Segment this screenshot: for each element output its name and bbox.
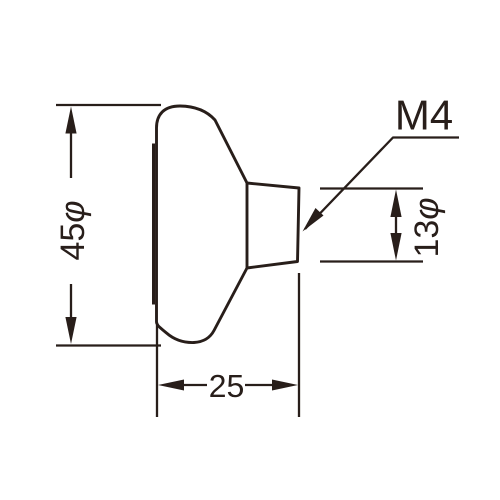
knob shoulder face line [246, 183, 249, 268]
13-dia dimension text [414, 199, 445, 255]
13-dia upper arrowhead [390, 190, 401, 218]
25 right extension line [298, 273, 300, 417]
25 dimension text [210, 375, 243, 398]
25 left arrowhead [158, 380, 184, 391]
13-dia dimension line middle segment [395, 212, 397, 238]
25 dimension line left segment [180, 384, 207, 386]
knob back-face chamfer line [152, 144, 155, 305]
M4 leader line [305, 138, 459, 230]
13-dia bottom extension line [320, 260, 423, 262]
M4 leader arrowhead [303, 208, 324, 232]
45-dia upper arrowhead [65, 107, 76, 134]
45-dia dimension line upper segment [70, 130, 72, 178]
M4 thread label [398, 101, 452, 130]
25 dimension line right segment [245, 384, 276, 386]
45-dia lower arrowhead [65, 317, 76, 344]
25 left extension line [156, 325, 158, 417]
45-dia dimension line lower segment [70, 284, 72, 320]
knob body outline [157, 106, 300, 343]
13-dia top extension line [320, 187, 423, 189]
25 right arrowhead [272, 380, 298, 391]
13-dia lower arrowhead [390, 233, 401, 261]
45-dia top extension line [56, 104, 161, 106]
45-dia dimension text [61, 202, 92, 260]
45-dia bottom extension line [56, 344, 161, 346]
